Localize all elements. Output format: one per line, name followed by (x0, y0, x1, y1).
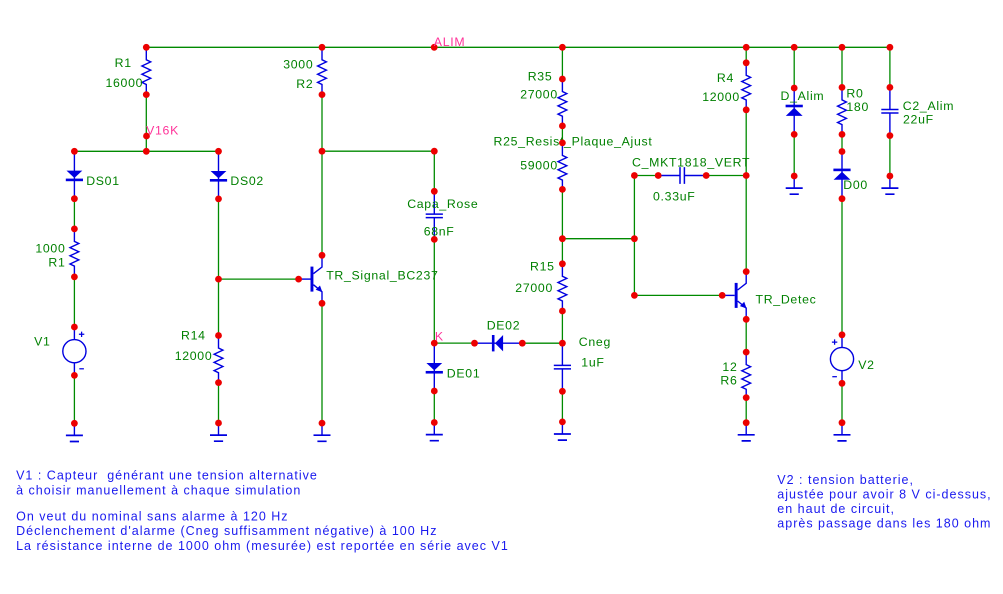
svg-text:27000: 27000 (515, 281, 553, 295)
junction dots R1/V16K column (143, 91, 150, 155)
wire node column x634 (633, 176, 635, 296)
svg-text:R35: R35 (528, 70, 553, 84)
diode DS01 (66, 151, 120, 199)
svg-text:R2: R2 (296, 77, 313, 91)
wire R35 to R25 (561, 126, 563, 143)
junction dots C2_Alim branch (887, 84, 894, 179)
wire rail drop to R35 (561, 47, 563, 79)
svg-text:180: 180 (846, 100, 869, 114)
resistor R15 27000 (515, 259, 567, 311)
wire node V16K horizontal row (74, 150, 218, 152)
wire D_Alim to ground (793, 134, 795, 176)
svg-text:DE01: DE01 (447, 366, 481, 380)
junction dots C_MKT pins (655, 172, 710, 179)
svg-text:K: K (435, 329, 444, 343)
capacitor C2_Alim 22uF (881, 87, 954, 135)
ground (TR_Signal emitter) (314, 423, 331, 441)
junction dots DS02/R14 branch (215, 196, 222, 427)
junction dots D_Alim branch (791, 85, 798, 180)
wire V2 to ground (841, 383, 843, 422)
svg-text:0.33uF: 0.33uF (653, 189, 695, 203)
wire ALIM power rail (146, 46, 890, 48)
wire node K to DE02 (434, 342, 474, 344)
svg-text:12000: 12000 (175, 349, 213, 363)
svg-text:Cneg: Cneg (579, 335, 611, 349)
svg-text:16000: 16000 (105, 76, 143, 90)
wire R4 to TR_Detec collector (745, 110, 747, 272)
svg-text:DE02: DE02 (487, 318, 521, 332)
svg-text:V2 : tension batterie,ajustée: V2 : tension batterie,ajustée pour avoir… (777, 473, 991, 530)
wire R14 to ground (218, 383, 220, 423)
resistor R14 12000 (175, 328, 223, 382)
diode DE01 (426, 343, 481, 391)
wire C_MKT right to R4 column (706, 175, 746, 177)
wire R1b to V1 (73, 277, 75, 327)
svg-text:DS02: DS02 (230, 174, 264, 188)
ground (V2 branch) (834, 423, 851, 441)
junction dots DE02 pins (471, 340, 526, 347)
wire Cneg to ground (561, 391, 563, 422)
wire Capa_Rose to node K (433, 239, 435, 343)
svg-text:R1: R1 (48, 256, 65, 270)
svg-text:TR_Detec: TR_Detec (756, 293, 817, 307)
svg-text:R0: R0 (846, 86, 863, 100)
junction dots R35/R25/R15/Cneg column (559, 76, 566, 426)
wire V1 to ground (73, 375, 75, 423)
resistor R6 12 (720, 352, 750, 398)
svg-text:V1 : Capteur générant une ten: V1 : Capteur générant une tension altern… (16, 469, 318, 498)
ground (R6 branch) (738, 423, 755, 441)
svg-text:V16K: V16K (146, 123, 179, 137)
svg-text:TR_Signal_BC237: TR_Signal_BC237 (326, 269, 438, 283)
wire rail drop to R4 (745, 47, 747, 63)
transistor TR_Detec (722, 272, 816, 320)
ground (DE01 branch) (426, 423, 443, 441)
capacitor Cneg 1uF (554, 335, 611, 391)
junction dots ALIM rail (143, 44, 893, 51)
diode DS02 (210, 151, 264, 199)
svg-text:R1: R1 (115, 56, 132, 70)
svg-text:On veut du nominal sans alarme: On veut du nominal sans alarme à 120 HzD… (16, 509, 509, 553)
wire R1 bottom to V16K node (145, 95, 147, 152)
svg-text:V2: V2 (858, 358, 874, 372)
junction dots Capa_Rose/DE01 branch (431, 148, 438, 426)
svg-text:1000: 1000 (35, 242, 65, 256)
resistor R2 3000 (283, 47, 326, 94)
svg-text:59000: 59000 (520, 159, 558, 173)
wire node to TR_Signal collector (321, 151, 323, 255)
source V1 (34, 327, 86, 375)
svg-text:V1: V1 (34, 335, 50, 349)
wire rail drop to D_Alim (793, 47, 795, 88)
svg-text:D_Alim: D_Alim (781, 89, 825, 103)
junction dots DS01/V1 branch (71, 195, 78, 426)
junction dots node column x634 (631, 172, 638, 299)
wire rail drop to R0 (841, 47, 843, 87)
wire R25 to R15 (561, 189, 563, 263)
transistor TR_Signal_BC237 (298, 255, 438, 303)
wire TR_Signal base row (219, 278, 299, 280)
svg-text:12: 12 (722, 360, 737, 374)
svg-text:R6: R6 (720, 373, 737, 387)
wire TR_Detec base row (634, 294, 722, 296)
wire R2 bottom drop (321, 95, 323, 152)
svg-text:ALIM: ALIM (434, 35, 466, 49)
wire C2_Alim to ground (889, 136, 891, 176)
wire DE02 to Cneg node (522, 342, 562, 344)
wire node to C_MKT left (634, 175, 658, 177)
wire R6 to ground (745, 398, 747, 423)
wire D00 to V2 (841, 199, 843, 335)
svg-text:C_MKT1818_VERT: C_MKT1818_VERT (632, 155, 750, 169)
wire DS01 to R1b (73, 199, 75, 229)
svg-text:R14: R14 (181, 328, 206, 342)
resistor R4 12000 (702, 63, 750, 110)
ground (V1 branch) (66, 423, 83, 441)
junction dots R2/TR_Signal branch (295, 91, 325, 426)
svg-text:12000: 12000 (702, 90, 740, 104)
ground (R14 branch) (210, 423, 227, 441)
resistor R25_Resist_Plaque_Ajust 59000 (494, 135, 653, 190)
resistor R35 27000 (520, 70, 567, 126)
ground (C2_Alim branch) (881, 176, 898, 194)
ground (D_Alim branch) (786, 176, 803, 194)
diode DE02 (475, 318, 523, 351)
junction dots R4/TR_Detec/R6 column (719, 59, 750, 426)
svg-text:27000: 27000 (520, 87, 558, 101)
wire node row to Capa_Rose (322, 150, 434, 152)
wire R0 to D00 (841, 134, 843, 151)
junction dots V16K row ends (71, 148, 222, 155)
wire TR_Signal emitter to ground (321, 303, 323, 423)
wire rail drop to C2_Alim (889, 47, 891, 87)
svg-text:R15: R15 (530, 259, 555, 273)
svg-text:68nF: 68nF (424, 224, 455, 238)
wire node to Capa_Rose top (433, 151, 435, 191)
wire TR_Detec emitter to R6 (745, 319, 747, 352)
source V2 (830, 335, 874, 384)
resistor R1 16000 (105, 47, 150, 94)
capacitor C_MKT1818_VERT 0.33uF (632, 155, 750, 203)
resistor R1 1000 (series with V1) (35, 229, 78, 277)
wire branch row to node column (562, 238, 634, 240)
junction dots R0/D00/V2 branch (839, 84, 846, 426)
diode D_Alim (781, 88, 825, 134)
svg-text:3000: 3000 (283, 58, 313, 72)
resistor R0 180 (838, 86, 869, 134)
svg-text:D00: D00 (843, 178, 868, 192)
wire DE01 to ground (433, 391, 435, 423)
svg-text:DS01: DS01 (86, 174, 120, 188)
svg-text:Capa_Rose: Capa_Rose (407, 197, 478, 211)
wire DS02 to R14 (218, 199, 220, 336)
wire R15 to Cneg node (561, 311, 563, 343)
svg-text:C2_Alim: C2_Alim (903, 99, 954, 113)
capacitor Capa_Rose 68nF (407, 191, 478, 239)
svg-text:22uF: 22uF (903, 113, 934, 127)
svg-text:R4: R4 (717, 71, 734, 85)
svg-text:1uF: 1uF (581, 355, 604, 369)
svg-text:R25_Resist_Plaque_Ajust: R25_Resist_Plaque_Ajust (494, 135, 653, 149)
ground (Cneg branch) (554, 422, 571, 440)
diode D00 (833, 152, 868, 199)
